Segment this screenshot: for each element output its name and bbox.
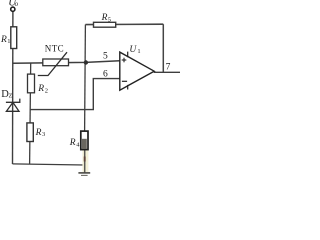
resistor R4: [81, 131, 88, 150]
wire divider midpoint to pin 6: [30, 79, 120, 110]
wire R2/R3 divider column: [30, 63, 31, 164]
svg-text:Z: Z: [9, 94, 13, 100]
wire center vertical: R5 left end through node to R4: [84, 25, 87, 132]
wire bottom rail: [13, 164, 85, 165]
svg-text:1: 1: [137, 48, 140, 55]
svg-text:NTC: NTC: [45, 44, 64, 54]
resistor R1: [11, 27, 17, 49]
zener diode Dz anode triangle: [6, 102, 19, 111]
resistor R5 (feedback): [94, 22, 116, 27]
thermistor NTC diagonal stroke: [38, 52, 67, 75]
wire feedback right vertical down to output: [162, 24, 164, 72]
yellow artifact behind R4 lower wire: [82, 150, 88, 172]
svg-text:5: 5: [108, 16, 111, 23]
svg-text:o: o: [15, 0, 19, 8]
node A bus: rail to NTC to junction to pin 5: [13, 61, 120, 64]
svg-text:1: 1: [7, 38, 10, 45]
svg-text:7: 7: [166, 62, 171, 72]
svg-text:R: R: [35, 128, 42, 138]
resistor R2: [28, 74, 35, 93]
artifact dark fill inside R4: [82, 139, 87, 149]
zener diode Dz cathode bar: [6, 99, 20, 103]
thermistor NTC body: [43, 59, 69, 66]
svg-text:6: 6: [103, 70, 108, 80]
terminal Uo circle: [11, 7, 15, 11]
junction node dot: [84, 60, 88, 64]
artifact dark blob on wire: [84, 157, 86, 162]
svg-text:2: 2: [45, 88, 48, 95]
wire feedback top: across R5: [85, 23, 163, 25]
ground symbol bar 2: [81, 175, 88, 177]
op-amp power stub top: [127, 52, 129, 58]
ground symbol bar 1: [78, 172, 90, 174]
svg-text:3: 3: [42, 131, 45, 138]
op-amp power stub bottom: [127, 85, 129, 90]
svg-text:R: R: [69, 138, 76, 148]
wire R4 bottom to ground: [84, 150, 86, 173]
resistor R3: [27, 123, 33, 142]
wire output pin 7: [154, 71, 180, 73]
op-amp plus input marker: [122, 59, 127, 61]
svg-text:R: R: [0, 35, 7, 45]
svg-text:R: R: [37, 84, 44, 94]
op-amp U1 triangle: [120, 52, 154, 90]
svg-text:5: 5: [103, 52, 108, 62]
svg-text:R: R: [101, 13, 108, 23]
wire left rail (Uo terminal down to bottom rail): [12, 11, 14, 164]
op-amp minus input marker: [122, 80, 127, 82]
svg-text:U: U: [129, 45, 137, 55]
svg-text:4: 4: [76, 142, 80, 149]
